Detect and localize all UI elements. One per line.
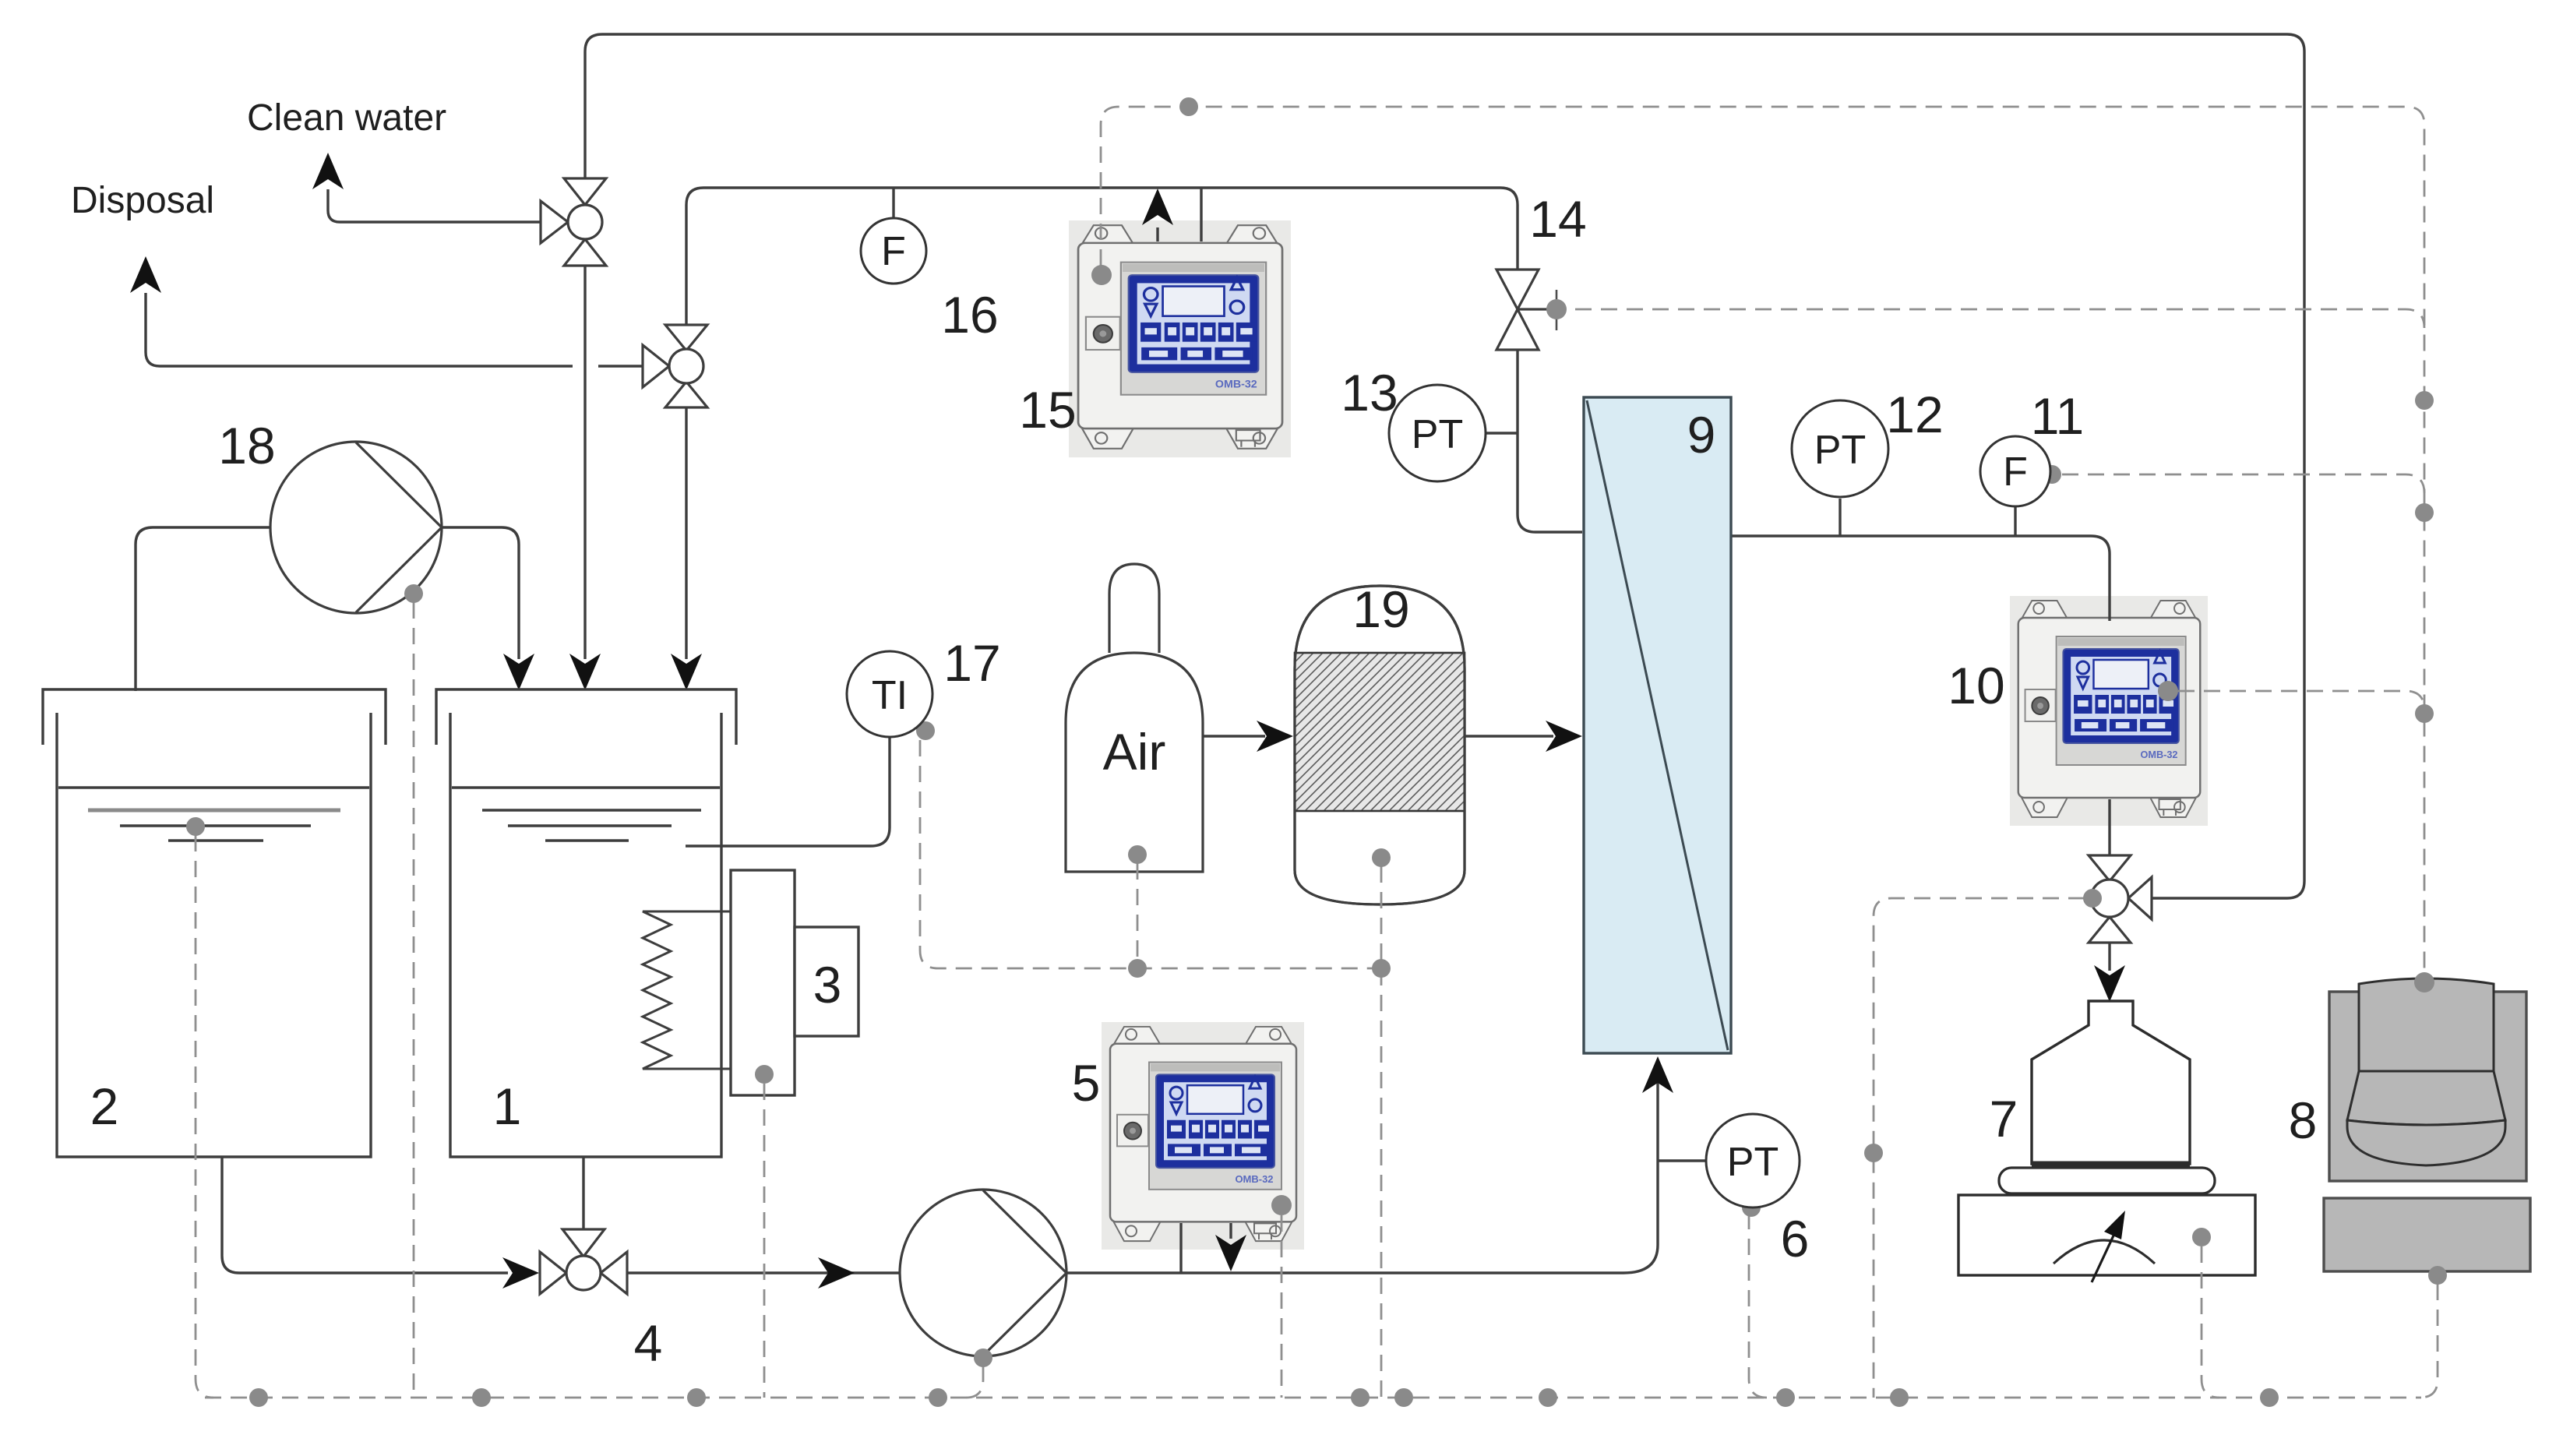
valve 14 actuator tick (1556, 290, 1558, 330)
tank 1 (436, 689, 736, 1157)
node bus 8 (1776, 1388, 1795, 1407)
valve A (3-way to clean water / recirculation) (541, 178, 606, 266)
arrow valve A line into tank 1 (569, 654, 601, 690)
wire pump 18 discharge into tank 1 (442, 527, 519, 659)
node TI17 (916, 721, 935, 740)
svg-text:6: 6 (1781, 1210, 1810, 1267)
signal wire valve 14 to PC column (1575, 309, 2424, 328)
signal wire air bottle branch (1137, 863, 1139, 968)
instrument PT13 (1389, 385, 1486, 481)
arrow before pump 4 (818, 1257, 855, 1289)
wire PT6 stub (1658, 1159, 1705, 1162)
svg-text:F: F (881, 229, 906, 274)
instrument F11 (1980, 436, 2050, 506)
node F11 (2043, 465, 2061, 484)
signal wire PC lower unit to bus (2420, 1284, 2438, 1398)
wire air bottle to vessel 19 (1203, 735, 1265, 737)
node bus 3 (687, 1388, 706, 1407)
wire controller 10 to valve C (2108, 799, 2110, 855)
node valve C (2083, 889, 2102, 908)
arrow before valve D (502, 1257, 539, 1289)
pump 4 (900, 1190, 1066, 1356)
node bus 10 (2260, 1388, 2279, 1407)
signal wire F11 to PC column (2062, 474, 2424, 493)
svg-text:Clean water: Clean water (247, 97, 446, 139)
heater control box 3 (795, 927, 858, 1036)
vessel 19 (saturator) (1137, 586, 1622, 904)
node PT6 (1742, 1198, 1761, 1217)
svg-text:7: 7 (1990, 1090, 2018, 1148)
svg-text:PT: PT (1412, 412, 1463, 457)
arrow disposal up (130, 256, 161, 293)
signal wire controller 10 to PC column (2178, 691, 2424, 710)
node bus 7 (1539, 1388, 1557, 1407)
controller 10 (2010, 596, 2208, 826)
instrument PT12 (1792, 400, 1888, 497)
svg-text:Air: Air (1103, 723, 1166, 781)
svg-text:3: 3 (813, 956, 842, 1014)
wire disposal branch (146, 293, 643, 366)
svg-text:F: F (2003, 449, 2028, 495)
node junction vessel branch (1372, 959, 1391, 978)
signal wire PT6 to bus (1749, 1213, 1767, 1398)
node pump 4 (974, 1348, 992, 1367)
signal wire TI17 branch (920, 740, 1381, 968)
tank 2 liquid level (58, 788, 369, 841)
wire tank 2 outlet to valve D (222, 1157, 508, 1273)
wire vessel 19 to membrane feed port (1465, 735, 1553, 737)
arrow vessel 19 into membrane (1546, 721, 1582, 752)
tank 2 (43, 689, 386, 1157)
node bus 9 (1890, 1388, 1909, 1407)
arrow pump 18 line into tank 1 (503, 654, 534, 690)
wire recirculation top loop from valve A riser to valve C (585, 34, 2304, 898)
controller 15 (1069, 220, 1291, 457)
wire clean water branch (328, 189, 541, 222)
svg-text:17: 17 (943, 634, 1000, 692)
svg-text:19: 19 (1352, 580, 1409, 638)
wire controller 5 stubs (1181, 1223, 1231, 1273)
svg-text:5: 5 (1072, 1054, 1101, 1112)
arrow controller 15 stub up (1142, 189, 1173, 225)
air bottle (1066, 564, 1203, 872)
svg-text:11: 11 (2031, 387, 2085, 445)
wire PT13 stub (1485, 432, 1518, 434)
wire controller 15 stubs (1158, 188, 1201, 241)
balance (1958, 1195, 2255, 1282)
arrow valve C into carboy (2094, 965, 2125, 1002)
membrane module 9 (1584, 397, 1731, 1053)
wire valve 14 outlet into membrane top port (1518, 350, 1582, 532)
tank 1 liquid level (452, 788, 720, 841)
svg-text:PT: PT (1727, 1140, 1779, 1185)
computer 8 lower unit (2324, 1198, 2530, 1271)
arrow controller 5 stub down (1215, 1235, 1246, 1271)
valve C (3-way at carboy) (2089, 855, 2152, 943)
wire valve D to pump 4 (627, 1271, 900, 1274)
signal wire pump 4 to bus (966, 1366, 983, 1398)
node bus 2 (472, 1388, 491, 1407)
arrow feed into membrane bottom (1642, 1056, 1673, 1093)
node junction top signal line (1179, 97, 1198, 116)
svg-text:9: 9 (1687, 406, 1716, 464)
node PC top (2414, 972, 2434, 992)
node controller 10 (2158, 681, 2178, 701)
node valve 14 (1546, 299, 1567, 319)
instrument F16 (861, 218, 926, 284)
node bus 6 (1394, 1388, 1413, 1407)
pump 18 (270, 442, 442, 613)
node bus 5 (1351, 1388, 1370, 1407)
signal wire valve C to bus (1874, 898, 2085, 1398)
svg-text:4: 4 (634, 1314, 663, 1372)
instrument PT6 (1706, 1114, 1800, 1207)
node balance (2192, 1228, 2211, 1246)
carboy pad (1999, 1168, 2215, 1193)
wire F16 stub (892, 188, 894, 219)
node vessel 19 (1372, 848, 1391, 867)
node PC column b (2415, 503, 2434, 522)
wire valve B riser and permeate header to valve 14 (686, 188, 1518, 325)
signal wire pump 18 to bus (413, 602, 415, 1398)
node PC column a (2415, 391, 2434, 410)
node PC column c (2415, 704, 2434, 723)
node PC lower (2428, 1266, 2447, 1285)
wire membrane permeate line into controller 10 (1731, 536, 2110, 621)
arrow valve B line into tank 1 (671, 654, 702, 690)
node bus 4 (929, 1388, 947, 1407)
signal wire balance to bus (2202, 1246, 2219, 1398)
heater housing (731, 870, 795, 1095)
node tank 2 level sensor (186, 817, 205, 836)
svg-text:Disposal: Disposal (71, 180, 214, 221)
svg-text:PT: PT (1814, 428, 1866, 473)
svg-text:8: 8 (2289, 1091, 2318, 1149)
wire pump 4 discharge to membrane bottom riser (1066, 1059, 1658, 1273)
valve D (3-way feed selection) (540, 1229, 627, 1294)
instrument TI17 (847, 651, 932, 737)
controller 5 (1102, 1022, 1304, 1250)
carboy 7 (2032, 1001, 2190, 1164)
signal wire controller 5 to bus (1281, 1215, 1283, 1398)
wire valve A outlet down into tank 1 (583, 266, 586, 659)
computer 8 (2329, 978, 2526, 1181)
wire valve C to carboy 7 (2108, 943, 2110, 971)
node air bottle (1128, 845, 1147, 864)
valve B (3-way to disposal) (643, 325, 707, 407)
svg-text:13: 13 (1341, 364, 1398, 421)
node heater box (755, 1065, 774, 1084)
svg-text:18: 18 (218, 417, 275, 474)
valve 14 (2-way) (1497, 270, 1547, 350)
svg-text:TI: TI (872, 673, 908, 718)
arrow air into vessel 19 (1257, 721, 1293, 752)
svg-text:12: 12 (1886, 386, 1943, 443)
heater coil in tank 1 (643, 911, 731, 1069)
node bus 1 (249, 1388, 268, 1407)
svg-text:14: 14 (1529, 190, 1586, 248)
wire tank 2 to pump 18 suction (136, 527, 271, 691)
wire tank 1 outlet to valve D (582, 1157, 584, 1230)
wire TI17 stub to tank 1 (686, 738, 890, 846)
wire F11 stub (2014, 507, 2016, 536)
wire PT12 stub (1838, 499, 1841, 536)
node controller 5 (1271, 1195, 1292, 1215)
signal wire controller 15 to PC column (1101, 107, 2424, 974)
node junction air branch (1128, 959, 1147, 978)
svg-text:2: 2 (90, 1077, 119, 1135)
signal wire tank 2 level to bus (196, 835, 213, 1398)
signal bus bottom (205, 1397, 2421, 1399)
node on valve C signal (1864, 1144, 1883, 1162)
svg-text:1: 1 (493, 1077, 522, 1135)
wire valve B outlet down into tank 1 (685, 407, 687, 659)
signal wire vessel 19 to bus (1380, 866, 1383, 1398)
node pump 18 (404, 584, 423, 603)
svg-text:10: 10 (1948, 657, 2004, 714)
svg-text:15: 15 (1019, 381, 1076, 439)
arrow clean water up (312, 153, 344, 189)
svg-text:16: 16 (941, 286, 998, 344)
node controller 15 (1091, 265, 1112, 285)
signal wire heater box to bus (763, 1084, 766, 1398)
